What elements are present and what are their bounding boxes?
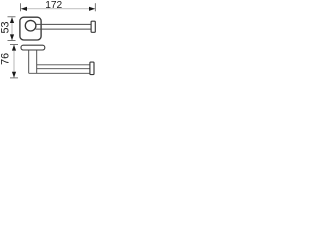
dimension 53 down arrowhead xyxy=(10,34,14,40)
dimension 76 down arrowhead xyxy=(12,72,16,78)
dimension 53 up arrowhead xyxy=(10,17,14,23)
end cap (side view) xyxy=(90,62,94,75)
svg-text:172: 172 xyxy=(45,0,62,11)
wall flange (side view) xyxy=(21,45,45,50)
bar top edge (top view) xyxy=(36,23,91,25)
dimension 172 extension tick left xyxy=(20,3,22,11)
dimension 76 up arrowhead xyxy=(12,45,16,51)
bar bottom edge (side view) xyxy=(29,72,90,74)
svg-text:53: 53 xyxy=(0,21,11,33)
dimension 53 extension tick top xyxy=(8,16,16,18)
dimension 172 line xyxy=(21,8,95,10)
dimension 76 extension tick bottom xyxy=(10,77,18,79)
dimension 172 left arrowhead xyxy=(21,7,27,11)
stem left edge (side view) xyxy=(28,50,30,73)
end cap (top view) xyxy=(91,21,95,32)
dimension 76 extension tick top xyxy=(10,43,18,45)
stem right edge (side view) xyxy=(36,50,38,73)
dimension 172 right arrowhead xyxy=(89,7,95,11)
bar top edge (side view) xyxy=(37,64,90,66)
bar bottom edge (top view) xyxy=(36,28,91,30)
dimension 172 extension tick right xyxy=(94,3,96,11)
wall plate (top view) xyxy=(20,17,41,40)
bar mid line (side view) xyxy=(37,68,90,70)
dimension 53 extension tick bottom xyxy=(8,40,16,42)
dimension 76 line xyxy=(13,45,15,78)
svg-text:76: 76 xyxy=(0,53,12,65)
dimension 53 line xyxy=(11,17,13,40)
mounting boss circle xyxy=(25,20,36,31)
